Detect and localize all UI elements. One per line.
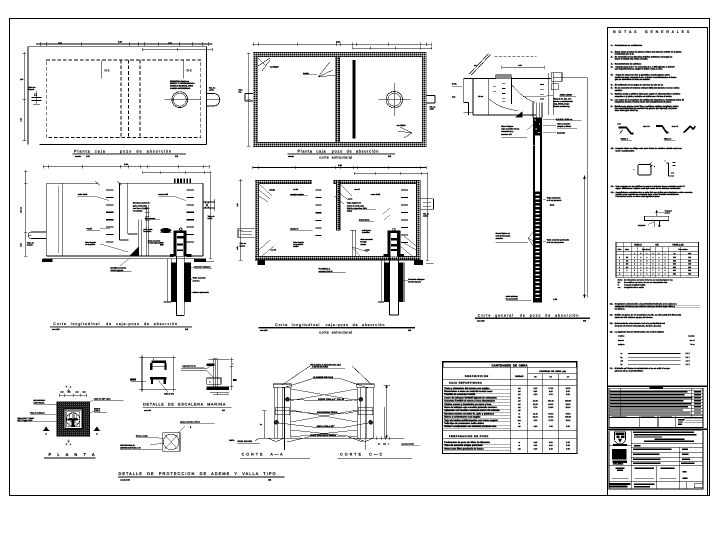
post corte C-C bbox=[357, 384, 374, 387]
svg-text:988: 988 bbox=[673, 263, 676, 266]
flap valve dark oval bbox=[160, 228, 171, 233]
svg-text:m3: m3 bbox=[518, 447, 521, 450]
stirrup figure bbox=[638, 165, 651, 176]
svg-text:var: var bbox=[618, 287, 621, 289]
svg-text:2.10: 2.10 bbox=[533, 387, 537, 390]
perforated tube black column bbox=[533, 192, 542, 302]
svg-text:hermético: hermético bbox=[143, 230, 151, 233]
svg-text:salida: salida bbox=[208, 217, 213, 220]
svg-text:5.1 2: 5.1 2 bbox=[686, 363, 690, 366]
detail: corte A-A and corte C-C fence posts bbox=[238, 363, 420, 458]
brocal dark block bbox=[533, 118, 542, 136]
chimney registro structural bbox=[387, 231, 400, 257]
svg-text:2.1 0: 2.1 0 bbox=[686, 352, 690, 355]
svg-text:Longitud total o varilla: Longitud total o varilla bbox=[624, 286, 645, 289]
svg-text:con imperfecciones cargar la d: con imperfecciones cargar la doble i cot… bbox=[615, 68, 663, 71]
center wall bbox=[336, 57, 340, 143]
left stub bbox=[238, 228, 255, 230]
shaft thick walls bbox=[533, 136, 535, 192]
detail: escalera marina bbox=[130, 356, 236, 412]
svg-text:5.90: 5.90 bbox=[566, 393, 570, 396]
svg-text:f'c=150 kg/cm2: f'c=150 kg/cm2 bbox=[148, 242, 160, 245]
svg-text:ø 45 cm sin juntear: ø 45 cm sin juntear bbox=[547, 241, 564, 244]
svg-text:0.60: 0.60 bbox=[20, 243, 23, 246]
svg-text:17.10: 17.10 bbox=[548, 387, 553, 390]
svg-text:19.20: 19.20 bbox=[566, 387, 571, 390]
svg-text:a: a bbox=[634, 253, 635, 255]
manhole circle bbox=[172, 92, 188, 108]
rungs bbox=[316, 189, 322, 191]
title block bbox=[608, 386, 708, 489]
svg-text:9.-: 9.- bbox=[611, 105, 614, 108]
svg-text:29 var: 29 var bbox=[478, 95, 483, 98]
svg-text:Concreto ciclopeo: Concreto ciclopeo bbox=[194, 265, 211, 268]
svg-text:Muro de tabique rojo recocido: Muro de tabique rojo recocido junteado m… bbox=[444, 406, 497, 409]
svg-text:1.-: 1.- bbox=[611, 44, 614, 47]
inlet pipe left bbox=[31, 231, 46, 233]
svg-text:fin m: fin m bbox=[691, 343, 695, 346]
thick dividing wall bbox=[353, 60, 356, 139]
svg-text:llegada: llegada bbox=[29, 88, 35, 91]
svg-text:4.10: 4.10 bbox=[533, 444, 537, 447]
svg-text:Grava para filtro graduada de: Grava para filtro graduada de banco bbox=[444, 447, 484, 450]
left stub bbox=[245, 93, 253, 95]
svg-text:5.00: 5.00 bbox=[566, 390, 570, 393]
svg-text:Escalera marina fo: Escalera marina fo bbox=[133, 202, 151, 205]
svg-text:En su concreto el refuerzo cúr: En su concreto el refuerzo cúrsará f(10)… bbox=[615, 87, 680, 90]
svg-text:67.40: 67.40 bbox=[548, 412, 553, 415]
svg-text:113: 113 bbox=[688, 256, 691, 259]
signature boxes bbox=[609, 416, 703, 428]
revision table bbox=[609, 388, 703, 417]
svg-text:2.30: 2.30 bbox=[338, 164, 342, 167]
svg-text:simple: simple bbox=[360, 243, 366, 246]
svg-text:kg/m lineal: kg/m lineal bbox=[642, 248, 651, 251]
svg-text:esc 1:20: esc 1:20 bbox=[260, 329, 267, 332]
svg-text:La siguiente lista de informac: La siguiente lista de información este a… bbox=[615, 330, 665, 333]
shaft below floor: dark bands bbox=[166, 259, 168, 302]
right stub bbox=[420, 198, 433, 200]
svg-text:pozo de absorción: pozo de absorción bbox=[120, 149, 172, 153]
rungs right bbox=[187, 189, 195, 191]
svg-text:AREA LIBRE: AREA LIBRE bbox=[560, 94, 573, 97]
svg-text:Plantilla de concreto f'c=100: Plantilla de concreto f'c=100 bbox=[444, 393, 476, 396]
detail: proteccion de ademe bbox=[120, 420, 235, 451]
svg-text:madrina: madrina bbox=[496, 237, 504, 240]
svg-text:126.50: 126.50 bbox=[565, 400, 571, 403]
svg-text:12.-: 12.- bbox=[611, 191, 615, 194]
svg-text:ver proyecto: ver proyecto bbox=[85, 243, 95, 246]
svg-text:11.-: 11.- bbox=[611, 185, 615, 188]
logo square cell bbox=[613, 450, 627, 460]
svg-text:1.00: 1.00 bbox=[58, 41, 61, 44]
svg-text:Escalera marina con tubo fo. g: Escalera marina con tubo fo. galv. y pel… bbox=[444, 412, 494, 415]
hook bars figure bbox=[667, 163, 671, 176]
svg-text:m2: m2 bbox=[518, 409, 521, 412]
drop pipe bbox=[138, 220, 140, 256]
svg-text:var.#3@20: var.#3@20 bbox=[397, 124, 406, 127]
svg-text:6: 6 bbox=[619, 266, 620, 269]
svg-text:lámina antiderrap.: lámina antiderrap. bbox=[554, 105, 571, 108]
svg-text:2.00: 2.00 bbox=[533, 419, 537, 422]
section: corte general de pozo de absorcion bbox=[452, 54, 590, 323]
svg-text:junta: junta bbox=[347, 198, 352, 201]
svg-text:0.60: 0.60 bbox=[518, 64, 521, 67]
svg-text:5.-: 5.- bbox=[611, 83, 614, 86]
svg-text:N.T.N.: N.T.N. bbox=[452, 83, 457, 86]
svg-text:131: 131 bbox=[688, 266, 691, 269]
svg-text:Corte longitudinal de caja: Corte longitudinal de caja-pozo de absor… bbox=[53, 322, 178, 326]
svg-text:este tramo junta: este tramo junta bbox=[496, 235, 512, 238]
table: cantidades de obra bbox=[442, 361, 577, 453]
svg-text:8.-: 8.- bbox=[611, 98, 614, 101]
svg-text:Tapa registro ½: Tapa registro ½ bbox=[347, 202, 361, 205]
svg-text:nivel máximo: nivel máximo bbox=[506, 295, 519, 298]
svg-text:6.-: 6.- bbox=[611, 87, 614, 90]
svg-text:esc 1:10: esc 1:10 bbox=[144, 409, 151, 412]
svg-text:Figura 2: Figura 2 bbox=[664, 138, 672, 141]
svg-text:898: 898 bbox=[673, 266, 676, 269]
svg-text:Concreto ciclopeo: Concreto ciclopeo bbox=[408, 278, 425, 281]
svg-text:0.60: 0.60 bbox=[236, 246, 239, 249]
svg-text:ANCLA VAR ø 3/8´´: ANCLA VAR ø 3/8´´ bbox=[317, 425, 336, 428]
svg-text:a: a bbox=[153, 358, 154, 360]
svg-text:m2: m2 bbox=[518, 403, 521, 406]
svg-text:3/4: 3/4 bbox=[626, 266, 628, 269]
chimney registro above floor bbox=[174, 230, 187, 256]
svg-text:corte estructural: corte estructural bbox=[319, 331, 352, 335]
svg-text:P L A N T A: P L A N T A bbox=[49, 452, 98, 457]
floor slab bbox=[46, 255, 203, 257]
svg-text:C O R T E A — A: C O R T E A — A bbox=[242, 453, 284, 457]
svg-text:b): b) bbox=[611, 74, 613, 77]
svg-text:m3: m3 bbox=[518, 400, 521, 403]
svg-text:25.10: 25.10 bbox=[566, 406, 571, 409]
svg-text:ver. el: ver. el bbox=[690, 339, 696, 342]
svg-text:llegada: llegada bbox=[27, 244, 33, 247]
svg-text:áng. 2½x¼ y tapa: áng. 2½x¼ y tapa bbox=[554, 103, 571, 106]
svg-text:Trazo y nivelacion del terreno: Trazo y nivelacion del terreno con equip… bbox=[444, 387, 490, 390]
svg-text:SOLDADURA TIPICA: SOLDADURA TIPICA bbox=[317, 411, 338, 414]
table: tabla de varillas bbox=[616, 242, 699, 277]
svg-text:que se determine la flota de e: que se determine la flota de estudio. bbox=[615, 78, 651, 81]
svg-text:kg: kg bbox=[621, 356, 623, 359]
svg-text:El verificado de los bajos lo: El verificado de los bajos lo verá los d… bbox=[615, 83, 664, 86]
svg-text:17.10: 17.10 bbox=[548, 419, 553, 422]
svg-text:codo textil: codo textil bbox=[78, 193, 88, 196]
svg-text:4.70: 4.70 bbox=[549, 393, 553, 396]
svg-text:cama textil: cama textil bbox=[371, 193, 381, 196]
figura 3 bent bar bbox=[683, 126, 695, 133]
svg-text:D E S C R I P C I O N: D E S C R I P C I O N bbox=[465, 375, 488, 378]
svg-text:653: 653 bbox=[673, 259, 676, 262]
svg-text:TABLA: TABLA bbox=[634, 244, 642, 247]
outlet right bbox=[203, 201, 215, 203]
svg-text:Acero de refuerzo fy=4200 kg/c: Acero de refuerzo fy=4200 kg/cm2 en estr… bbox=[444, 396, 497, 399]
svg-text:1.90: 1.90 bbox=[533, 425, 537, 428]
svg-text:antepro.: antepro. bbox=[618, 343, 625, 346]
svg-text:Marco y contramarco con angulo: Marco y contramarco con angulo bbox=[444, 416, 481, 419]
svg-text:m2: m2 bbox=[518, 387, 521, 390]
svg-text:10.-: 10.- bbox=[611, 147, 615, 150]
svg-text:var.#3@20: var.#3@20 bbox=[270, 66, 279, 69]
svg-text:64.10: 64.10 bbox=[548, 403, 553, 406]
right pipe stub bbox=[207, 93, 215, 95]
svg-text:2.30: 2.30 bbox=[336, 40, 340, 43]
svg-text:Tapa de fo. fdo. con: Tapa de fo. fdo. con bbox=[554, 97, 573, 100]
svg-text:var #3: var #3 bbox=[354, 188, 359, 191]
svg-text:ø 45 cm: ø 45 cm bbox=[193, 279, 200, 282]
svg-text:Recubrimiento de estribos:: Recubrimiento de estribos: bbox=[615, 63, 642, 66]
svg-text:esc 1:20: esc 1:20 bbox=[477, 319, 484, 322]
svg-text:N O T A S G E N E R A L E S: N O T A S G E N E R A L E S bbox=[613, 30, 690, 34]
svg-text:4.10: 4.10 bbox=[549, 444, 553, 447]
svg-text:9.30: 9.30 bbox=[566, 425, 570, 428]
svg-text:escala 1:20: escala 1:20 bbox=[120, 478, 130, 481]
svg-text:CANTIDADES DE OBRA: CANTIDADES DE OBRA bbox=[491, 363, 528, 367]
svg-text:m3: m3 bbox=[518, 425, 521, 428]
svg-text:Corte longitudinal caja-poz: Corte longitudinal caja-pozo de absorció… bbox=[275, 323, 385, 327]
svg-text:635: 635 bbox=[688, 263, 691, 266]
svg-text:Izquierda: Izquierda bbox=[638, 224, 645, 227]
svg-text:estable.: estable. bbox=[615, 89, 623, 92]
svg-text:esc 1:20: esc 1:20 bbox=[52, 328, 59, 331]
rungs left bbox=[106, 189, 114, 191]
svg-text:escala: escala bbox=[75, 155, 82, 158]
svg-text:5.70: 5.70 bbox=[533, 406, 537, 409]
svg-text:escala: escala bbox=[288, 155, 295, 158]
svg-text:19.40: 19.40 bbox=[533, 400, 538, 403]
svg-text:VARILLAS: VARILLAS bbox=[672, 244, 684, 247]
manhole circle structural bbox=[386, 92, 402, 108]
svg-text:salida: salida bbox=[430, 108, 434, 111]
svg-text:D-2: D-2 bbox=[187, 69, 192, 73]
notes panel border bbox=[608, 28, 708, 496]
svg-text:Relleno compactado con materia: Relleno compactado con material producto… bbox=[444, 425, 497, 428]
svg-text:c/ang: c/ang bbox=[347, 210, 353, 213]
svg-text:asentado jc y: asentado jc y bbox=[501, 130, 514, 133]
svg-text:17.-: 17.- bbox=[610, 367, 614, 370]
plan view: planta caja pozo de absorcion bbox=[20, 40, 221, 158]
svg-text:Aplanado con mortero cemento-a: Aplanado con mortero cemento-arena 1:5 a… bbox=[444, 409, 500, 412]
svg-text:usar otros (por favor b).: usar otros (por favor b). bbox=[615, 109, 639, 112]
svg-text:Núm: Núm bbox=[618, 248, 622, 251]
svg-text:diam: diam bbox=[625, 248, 629, 251]
svg-text:3: 3 bbox=[619, 256, 620, 259]
svg-text:detalle: detalle bbox=[303, 72, 309, 75]
svg-text:salida: salida bbox=[423, 215, 427, 218]
svg-text:concreto f'c=100: concreto f'c=100 bbox=[319, 270, 333, 273]
svg-text:Tubo concreto: Tubo concreto bbox=[557, 123, 571, 126]
svg-text:LAMINA ANTIDERRAP.: LAMINA ANTIDERRAP. bbox=[170, 87, 191, 90]
svg-text:el plano: el plano bbox=[618, 335, 624, 338]
ground line bbox=[259, 437, 377, 439]
svg-text:3.0 1: 3.0 1 bbox=[686, 356, 690, 359]
svg-text:78.80: 78.80 bbox=[566, 412, 571, 415]
svg-text:Valla tipo de proteccion malla: Valla tipo de proteccion malla ciclon bbox=[444, 422, 484, 425]
svg-text:999: 999 bbox=[688, 269, 691, 272]
svg-text:364: 364 bbox=[673, 272, 676, 275]
right stub bbox=[426, 95, 435, 97]
svg-text:1.50 var: 1.50 var bbox=[20, 207, 23, 214]
svg-text:junteado: junteado bbox=[556, 132, 566, 135]
svg-text:2.-: 2.- bbox=[611, 50, 614, 53]
svg-text:1.15: 1.15 bbox=[20, 118, 23, 121]
svg-text:1.00: 1.00 bbox=[168, 41, 171, 44]
svg-text:var #3: var #3 bbox=[293, 188, 298, 191]
svg-text:Perforacion de pozo de 45cm de: Perforacion de pozo de 45cm de diametro bbox=[444, 441, 490, 444]
svg-text:empalme n y junta y estable se: empalme n y junta y estable se unida esc… bbox=[615, 95, 673, 98]
svg-text:87.10: 87.10 bbox=[548, 416, 553, 419]
detail plan: planta ademe bbox=[17, 386, 123, 458]
svg-text:1.20: 1.20 bbox=[533, 393, 537, 396]
node D-1 bbox=[101, 61, 103, 79]
svg-text:13.-: 13.- bbox=[610, 303, 614, 306]
svg-text:rojo recocido 14 cm: rojo recocido 14 cm bbox=[501, 128, 519, 131]
wall band hatched bbox=[253, 53, 426, 147]
leader mid bbox=[318, 62, 335, 77]
svg-text:llegada: llegada bbox=[240, 244, 246, 247]
section: corte longitudinal de caja-pozo de absorcion bbox=[20, 163, 215, 331]
svg-text:pieza de 45 m. de profundidad.: pieza de 45 m. de profundidad. bbox=[615, 370, 644, 373]
svg-text:2.30: 2.30 bbox=[124, 163, 128, 166]
svg-text:var #3: var #3 bbox=[271, 249, 276, 252]
svg-text:Tubo concreto perforado: Tubo concreto perforado bbox=[547, 238, 570, 241]
svg-text:D-1: D-1 bbox=[105, 69, 110, 73]
svg-text:POSTE TUBO ø 2´´ CAL 30: POSTE TUBO ø 2´´ CAL 30 bbox=[318, 398, 345, 401]
svg-text:detalle: detalle bbox=[293, 245, 298, 248]
svg-text:tubo ø 1½: tubo ø 1½ bbox=[164, 392, 174, 395]
svg-text:e: e bbox=[659, 253, 660, 255]
svg-text:720: 720 bbox=[673, 256, 676, 259]
svg-text:var. liso ø ¾ @30: var. liso ø ¾ @30 bbox=[133, 207, 148, 210]
walls hatched bbox=[255, 180, 311, 184]
svg-text:Excavacion a mano en material: Excavacion a mano en material comun seco bbox=[444, 390, 493, 393]
svg-text:Cimbra comun y descimbra en mu: Cimbra comun y descimbra en muro y losa bbox=[444, 403, 492, 406]
svg-text:8.20: 8.20 bbox=[566, 444, 570, 447]
svg-text:ø 45 cm junteado: ø 45 cm junteado bbox=[547, 199, 562, 202]
svg-text:f'c=100 kg/cm2: f'c=100 kg/cm2 bbox=[111, 269, 124, 272]
footings under chimney bbox=[170, 254, 174, 257]
section structural: corte longitudinal caja-pozo bbox=[236, 164, 434, 335]
svg-text:4.10: 4.10 bbox=[533, 441, 537, 444]
T beam diagram bbox=[645, 216, 669, 220]
svg-text:los planos.: los planos. bbox=[615, 308, 626, 311]
svg-text:15.-: 15.- bbox=[610, 322, 614, 325]
svg-text:1.50: 1.50 bbox=[236, 203, 239, 206]
svg-text:5: 5 bbox=[619, 263, 620, 266]
svg-text:4.10: 4.10 bbox=[549, 441, 553, 444]
svg-text:1.50: 1.50 bbox=[553, 298, 557, 301]
svg-text:Concreto f'c=250 en muros y lo: Concreto f'c=250 en muros y losa cimenta… bbox=[444, 400, 495, 403]
svg-text:UNIDAD: UNIDAD bbox=[515, 375, 524, 378]
svg-text:DETALLE DE PROTECCION DE A: DETALLE DE PROTECCION DE ADEME Y VALLA T… bbox=[119, 471, 277, 476]
plan view structural: planta caja pozo de absorcion corte estructural bbox=[239, 40, 436, 159]
logo shield cell bbox=[609, 431, 703, 489]
svg-text:favor i continuación.: favor i continuación. bbox=[616, 149, 635, 152]
svg-text:21.10: 21.10 bbox=[533, 416, 538, 419]
svg-text:galv. ø 1½ peld.: galv. ø 1½ peld. bbox=[133, 204, 147, 207]
svg-text:Muro tabique: Muro tabique bbox=[501, 125, 513, 128]
svg-text:Corte general de pozo de: Corte general de pozo de absorción bbox=[478, 313, 579, 317]
svg-text:4.-: 4.- bbox=[611, 63, 614, 66]
svg-text:r=4t: r=4t bbox=[617, 123, 621, 126]
svg-text:11.40: 11.40 bbox=[533, 412, 538, 415]
svg-text:Planta caja: Planta caja bbox=[74, 149, 106, 153]
svg-text:corte estructural: corte estructural bbox=[319, 156, 352, 160]
footings under chimney bbox=[384, 254, 388, 257]
svg-text:Personal tal como se debe cada: Personal tal como se debe cada siguiente… bbox=[616, 195, 661, 198]
svg-text:ALAMBRE DE PUAS: ALAMBRE DE PUAS bbox=[313, 376, 334, 379]
svg-text:total L/2: total L/2 bbox=[643, 125, 649, 128]
svg-text:marco y contramarco: marco y contramarco bbox=[554, 100, 574, 103]
svg-text:0.20: 0.20 bbox=[452, 96, 455, 99]
svg-text:plantilla concreto: plantilla concreto bbox=[111, 266, 127, 269]
svg-text:x 55 DE ALTURA: x 55 DE ALTURA bbox=[312, 366, 329, 369]
svg-text:5/8: 5/8 bbox=[626, 263, 628, 266]
svg-text:m3: m3 bbox=[518, 390, 521, 393]
shaft below floor dark bands bbox=[381, 260, 383, 302]
haunch fans bbox=[259, 184, 272, 202]
svg-text:cama textil: cama textil bbox=[158, 193, 168, 196]
svg-text:tubo ø 1 1/2´´ galv.: tubo ø 1 1/2´´ galv. bbox=[94, 397, 111, 400]
svg-text:hacer é estable las notas a me: hacer é estable las notas a medio. bbox=[615, 58, 649, 61]
svg-text:1.40: 1.40 bbox=[549, 447, 553, 450]
svg-text:empalme, barras y barras otros: empalme, barras y barras otros del compl… bbox=[615, 101, 672, 104]
svg-text:Brocal típico en: Brocal típico en bbox=[496, 232, 511, 235]
grating bbox=[174, 179, 176, 184]
svg-text:4.10: 4.10 bbox=[549, 390, 553, 393]
svg-text:lts: lts bbox=[621, 363, 623, 366]
svg-text:1/2: 1/2 bbox=[626, 259, 628, 262]
svg-text:2.30: 2.30 bbox=[118, 40, 122, 43]
svg-text:SACMEX: SACMEX bbox=[613, 462, 624, 465]
svg-text:788: 788 bbox=[688, 272, 691, 275]
svg-text:N.A.M.E. +2.50 var: N.A.M.E. +2.50 var bbox=[556, 118, 573, 121]
svg-text:NIVEL DE PISO: NIVEL DE PISO bbox=[238, 440, 253, 443]
svg-text:Planta caja pozo de absor: Planta caja pozo de absorción bbox=[298, 149, 380, 153]
svg-text:signo. millímetros i objetos c: signo. millímetros i objetos cual tipo a… bbox=[616, 187, 682, 190]
svg-text:Pretíl: Pretíl bbox=[87, 228, 93, 231]
svg-text:ver detalle: ver detalle bbox=[133, 210, 142, 213]
svg-text:CANTIDAD DE OBRA (m): CANTIDAD DE OBRA (m) bbox=[539, 370, 566, 373]
svg-text:del pozo de terreno s/c proyec: del pozo de terreno s/c proyecto, del pe… bbox=[615, 325, 662, 328]
svg-text:C O R T E C — C: C O R T E C — C bbox=[340, 453, 383, 457]
svg-text:3/8: 3/8 bbox=[626, 256, 628, 259]
svg-text:salida: salida bbox=[209, 89, 214, 92]
svg-text:DETALLE DE ESCALERA MARINA: DETALLE DE ESCALERA MARINA bbox=[143, 402, 226, 406]
svg-text:Peso totales: Peso totales bbox=[678, 248, 687, 251]
svg-text:C A J A R E P A R T I D O R: C A J A R E P A R T I D O R A bbox=[449, 382, 482, 385]
svg-text:14.-: 14.- bbox=[610, 314, 614, 317]
svg-text:85.30: 85.30 bbox=[566, 403, 571, 406]
svg-text:Tubo concreto: Tubo concreto bbox=[193, 277, 207, 280]
svg-text:f'c=100 kg/cm2: f'c=100 kg/cm2 bbox=[408, 281, 421, 284]
svg-text:relleno apisonado: relleno apisonado bbox=[193, 291, 210, 294]
svg-text:4.1 0: 4.1 0 bbox=[686, 359, 690, 362]
svg-text:de excavación: de excavación bbox=[506, 297, 518, 300]
svg-text:m3: m3 bbox=[621, 359, 624, 362]
svg-text:1.40: 1.40 bbox=[533, 447, 537, 450]
svg-text:Tubo perforado: Tubo perforado bbox=[547, 196, 562, 199]
svg-text:1: 1 bbox=[627, 269, 628, 272]
svg-text:956: 956 bbox=[688, 259, 691, 262]
svg-text:P E R F O R A C I O N D E: P E R F O R A C I O N D E P O Z O bbox=[449, 435, 488, 438]
svg-text:brocal: brocal bbox=[665, 212, 670, 215]
svg-text:Asas L/r: Asas L/r bbox=[672, 125, 679, 128]
svg-text:ajuste las del volumen apoyo,: ajuste las del volumen apoyo, de bancos. bbox=[615, 316, 654, 319]
svg-text:lleg.: lleg. bbox=[239, 91, 243, 94]
